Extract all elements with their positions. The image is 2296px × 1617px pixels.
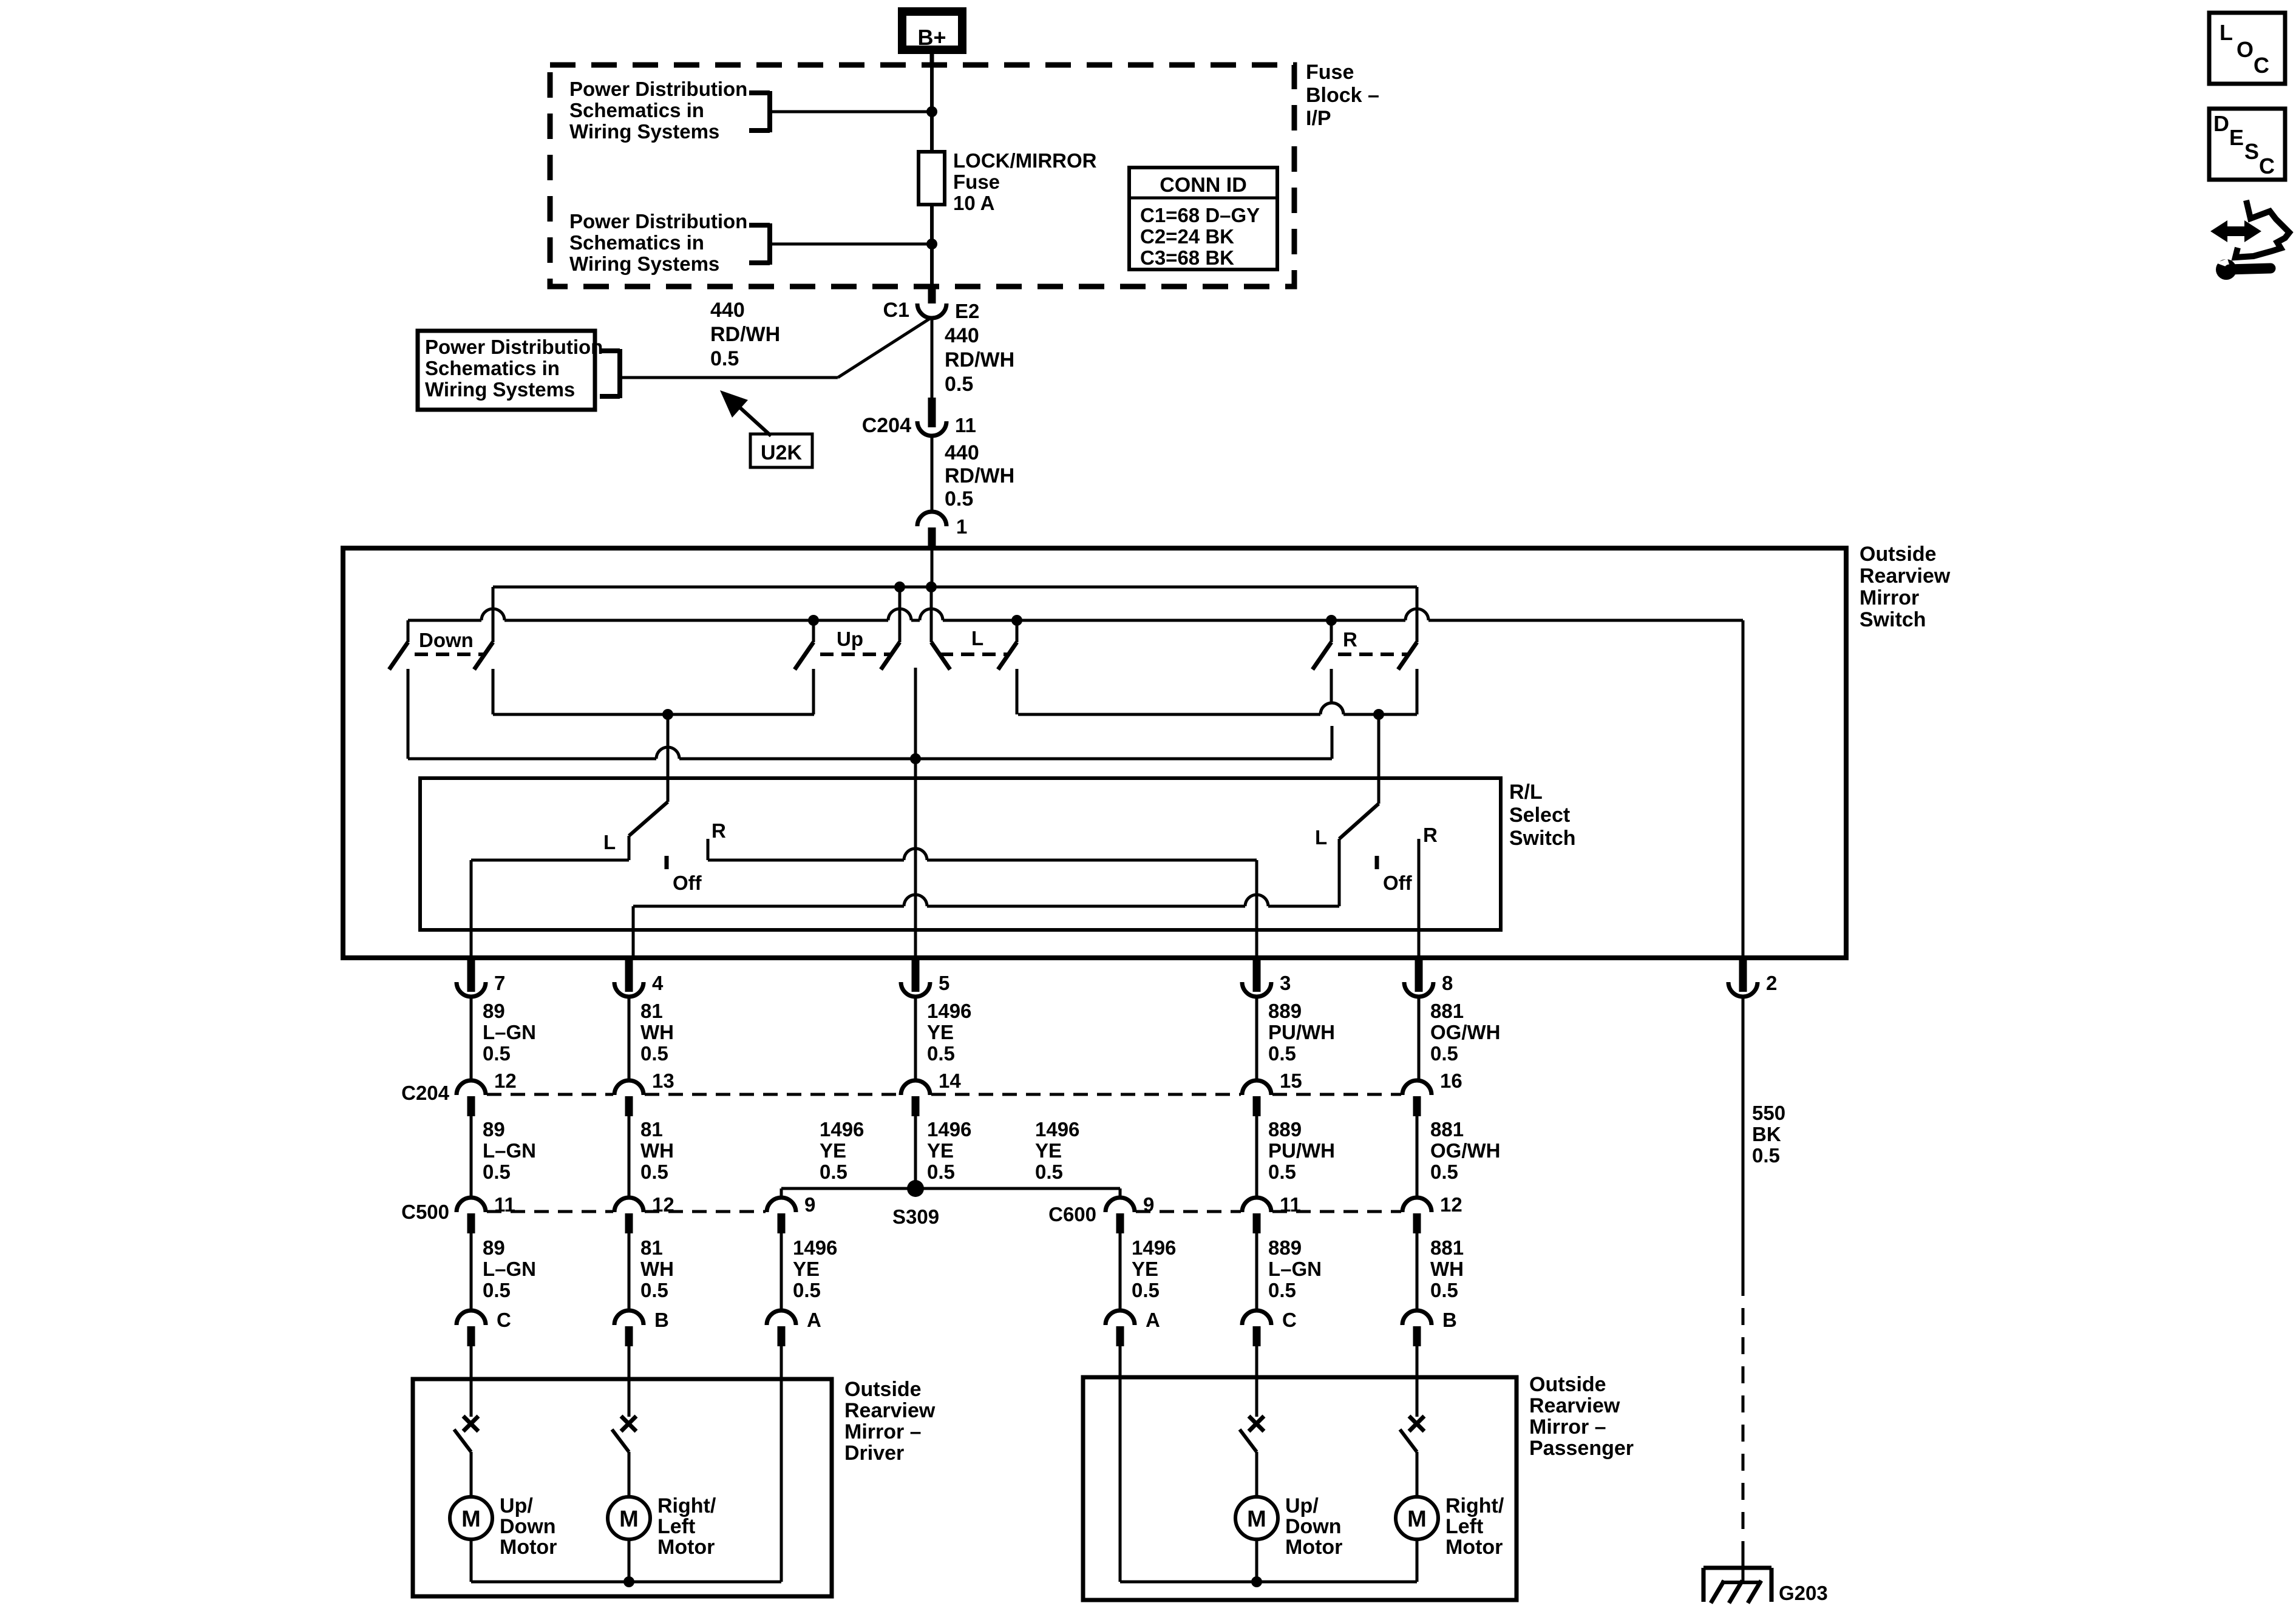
wire driver motor commons xyxy=(471,1539,781,1582)
svg-text:1496: 1496 xyxy=(820,1118,864,1141)
connector C204 pin 12 male stub xyxy=(467,1096,475,1116)
label Right/Left Motor (passenger) xyxy=(1445,1494,1504,1559)
wire left selector R to pin3 column xyxy=(708,849,1257,958)
svg-text:Power Distribution: Power Distribution xyxy=(569,78,747,100)
connector mirror pin C male stub xyxy=(1253,1326,1261,1346)
dashed connector line C500/C600 xyxy=(1272,1210,1401,1213)
svg-text:Left: Left xyxy=(1445,1515,1483,1538)
wire passenger motor commons xyxy=(1120,1539,1417,1582)
connector C1/E2 male stub xyxy=(928,286,936,303)
label Outside Rearview Mirror Switch xyxy=(1860,543,1951,631)
junction dot upper branch xyxy=(926,106,937,117)
svg-text:Down: Down xyxy=(500,1515,556,1538)
svg-text:9: 9 xyxy=(804,1193,815,1216)
svg-text:Mirror: Mirror xyxy=(1860,586,1919,609)
wire upper branch to B+ feed xyxy=(770,110,930,114)
connector pin 5 cup xyxy=(901,982,930,997)
arrow from U2K to wire xyxy=(720,390,771,436)
junction dot line A2 pole xyxy=(1373,709,1384,720)
label pin 11 (top) xyxy=(955,414,976,436)
switch L right blade xyxy=(998,642,1017,670)
svg-text:C500: C500 xyxy=(401,1201,449,1223)
svg-text:Motor: Motor xyxy=(1445,1536,1503,1559)
svg-text:0.5: 0.5 xyxy=(1268,1042,1296,1065)
connector C204 pin 15 dome xyxy=(1242,1080,1271,1095)
junction dot line A pole xyxy=(662,709,673,720)
connector mirror pin C dome xyxy=(1242,1310,1271,1325)
wire line1 right corner down (R switch right stub) xyxy=(1416,587,1419,642)
wire pin2 down to ground dashes xyxy=(1742,997,1745,1279)
wire Up left stub xyxy=(812,620,815,642)
connector C204 pin 16 male stub xyxy=(1413,1096,1421,1116)
svg-text:8: 8 xyxy=(1442,972,1453,994)
label S309 xyxy=(892,1205,939,1228)
svg-text:YE: YE xyxy=(1132,1258,1158,1280)
svg-text:Schematics in: Schematics in xyxy=(569,231,704,254)
svg-text:Select: Select xyxy=(1509,804,1570,827)
switch R left blade xyxy=(1313,642,1331,670)
svg-text:0.5: 0.5 xyxy=(483,1161,511,1183)
junction dot line1 at 1482 xyxy=(894,581,905,592)
wire pinC500-12 down xyxy=(628,1233,631,1310)
svg-text:E: E xyxy=(2229,125,2244,150)
label L xyxy=(971,627,983,649)
wire label 89 L-GN 0.5 (row2) xyxy=(483,1118,536,1183)
svg-text:O: O xyxy=(2237,37,2254,62)
wire collector line B xyxy=(408,747,1332,759)
svg-text:WH: WH xyxy=(640,1139,674,1162)
wire label 1496 YE 0.5 (row2 right) xyxy=(1035,1118,1079,1183)
wire mirror C down (driver) xyxy=(470,1346,473,1379)
svg-text:L: L xyxy=(603,831,616,853)
svg-text:E2: E2 xyxy=(955,300,979,322)
label C204 pin 15 xyxy=(1280,1070,1302,1092)
svg-text:L–GN: L–GN xyxy=(483,1021,536,1043)
wire R right terminal xyxy=(1416,669,1419,714)
label C500/C600 pin 11 xyxy=(494,1193,515,1216)
svg-text:0.5: 0.5 xyxy=(483,1042,511,1065)
svg-text:Outside: Outside xyxy=(844,1378,922,1401)
svg-text:0.5: 0.5 xyxy=(1430,1279,1458,1301)
svg-text:M: M xyxy=(619,1507,639,1532)
svg-text:889: 889 xyxy=(1268,1000,1302,1022)
passenger up/down motor feed switch xyxy=(1240,1377,1264,1497)
label L (right selector) xyxy=(1315,826,1327,849)
label power distribution schematics (lower) xyxy=(569,210,747,275)
R/L select switch box xyxy=(420,778,1501,930)
svg-text:C1: C1 xyxy=(883,299,909,322)
motor M driver right/left xyxy=(608,1497,650,1539)
wire B+ feed through fuse block upper xyxy=(930,65,934,153)
svg-text:0.5: 0.5 xyxy=(640,1042,668,1065)
wire line1 left corner down (Down switch right stub) xyxy=(492,587,495,642)
wire diagonal from C1 to power distribution branch xyxy=(624,318,931,378)
svg-text:YE: YE xyxy=(793,1258,820,1280)
U2K label box xyxy=(750,434,812,467)
connector pin 2 cup xyxy=(1728,982,1758,997)
svg-text:81: 81 xyxy=(640,1236,663,1259)
label C204 (top) xyxy=(862,414,911,437)
wire feed into switch xyxy=(931,548,934,587)
svg-text:B: B xyxy=(1442,1309,1457,1331)
svg-text:Up/: Up/ xyxy=(500,1494,533,1517)
svg-text:S309: S309 xyxy=(892,1205,939,1228)
label C500/C600 pin 12 xyxy=(652,1193,674,1216)
svg-text:I/P: I/P xyxy=(1306,107,1331,130)
svg-text:0.5: 0.5 xyxy=(945,373,973,396)
svg-text:Off: Off xyxy=(673,872,702,894)
svg-text:OG/WH: OG/WH xyxy=(1430,1139,1500,1162)
svg-text:1496: 1496 xyxy=(927,1000,971,1022)
DESC icon box xyxy=(2209,109,2285,180)
svg-text:L: L xyxy=(1315,826,1327,849)
connector C204 pin 13 dome xyxy=(614,1080,644,1095)
wire left selector L to pin7 column xyxy=(471,860,629,958)
svg-text:0.5: 0.5 xyxy=(1268,1161,1296,1183)
wire pin16 down xyxy=(1416,1116,1419,1198)
svg-text:C: C xyxy=(1282,1309,1297,1331)
wire pinC600-12 down xyxy=(1416,1233,1419,1310)
label R xyxy=(1343,628,1357,651)
connector pin 8 male stub xyxy=(1415,958,1423,992)
connector pin 7 male stub xyxy=(467,958,475,992)
wire mirror A down (driver) xyxy=(780,1346,783,1379)
svg-text:0.5: 0.5 xyxy=(1752,1144,1780,1167)
label mirror pin C xyxy=(497,1309,511,1331)
junction dot line2 Up stub xyxy=(808,615,819,626)
svg-text:BK: BK xyxy=(1752,1123,1781,1145)
svg-text:0.5: 0.5 xyxy=(483,1279,511,1301)
label Outside Rearview Mirror - Driver xyxy=(844,1378,936,1465)
svg-text:889: 889 xyxy=(1268,1236,1302,1259)
svg-text:16: 16 xyxy=(1440,1070,1462,1092)
connector C204 pin 13 male stub xyxy=(625,1096,633,1116)
connector pin 5 male stub xyxy=(912,958,920,992)
switch L linkage dashes xyxy=(940,653,1010,656)
svg-text:Power Distribution: Power Distribution xyxy=(425,336,603,358)
connector C204 pin 12 dome xyxy=(457,1080,486,1095)
wire mirror A down (passenger) xyxy=(1119,1346,1122,1377)
svg-text:Block –: Block – xyxy=(1306,84,1379,107)
wire line2 left corner down (Down switch left stub) xyxy=(407,620,410,642)
wire R left terminal xyxy=(1320,669,1343,759)
svg-text:881: 881 xyxy=(1430,1118,1464,1141)
svg-text:1496: 1496 xyxy=(1132,1236,1176,1259)
navigation arrows and wrench icon xyxy=(2210,200,2289,280)
svg-text:L–GN: L–GN xyxy=(1268,1258,1322,1280)
svg-text:81: 81 xyxy=(640,1000,663,1022)
svg-text:M: M xyxy=(1407,1507,1427,1532)
wire right selector L to pin4 column xyxy=(633,895,1339,958)
svg-text:13: 13 xyxy=(652,1070,674,1092)
svg-text:0.5: 0.5 xyxy=(1132,1279,1160,1301)
left selector L contact stub xyxy=(628,836,631,860)
svg-text:C3=68 BK: C3=68 BK xyxy=(1140,246,1234,269)
connector C204/11 cup xyxy=(917,421,946,436)
wire Down right terminal xyxy=(492,669,495,714)
svg-text:Right/: Right/ xyxy=(657,1494,716,1517)
right selector blade xyxy=(1339,804,1379,839)
wire label 889 PU/WH 0.5 (row2) xyxy=(1268,1118,1335,1183)
wire B+ to fuse block xyxy=(930,52,934,67)
connector C204 pin 14 male stub xyxy=(912,1096,920,1116)
left selector R contact stub xyxy=(707,839,710,860)
right selector Off tick xyxy=(1375,856,1379,869)
connector C500/C600 pin 9 male stub xyxy=(778,1213,786,1233)
svg-text:0.5: 0.5 xyxy=(1430,1042,1458,1065)
outside rearview mirror passenger box xyxy=(1083,1377,1517,1600)
svg-text:0.5: 0.5 xyxy=(1268,1279,1296,1301)
svg-text:RD/WH: RD/WH xyxy=(945,348,1014,371)
svg-text:Up: Up xyxy=(837,628,863,650)
svg-text:Switch: Switch xyxy=(1509,827,1576,850)
svg-text:1496: 1496 xyxy=(1035,1118,1079,1141)
wire lower branch to fuse output xyxy=(770,243,930,246)
svg-text:R: R xyxy=(1423,824,1438,846)
wire label 1496 YE 0.5 (row3 right) xyxy=(1132,1236,1176,1301)
svg-text:YE: YE xyxy=(1035,1139,1062,1162)
wire feed blade stub 1482 xyxy=(898,587,902,642)
dashed connector line C204 xyxy=(487,1093,613,1096)
svg-text:0.5: 0.5 xyxy=(640,1161,668,1183)
LOC icon box xyxy=(2209,13,2285,84)
wire label 1496 YE 0.5 (row3 left) xyxy=(793,1236,837,1301)
connector pin 3 male stub xyxy=(1253,958,1261,992)
svg-text:Passenger: Passenger xyxy=(1529,1437,1634,1460)
connector C500/C600 pin 11 dome xyxy=(457,1198,486,1212)
splice S309 wire xyxy=(781,1188,1120,1198)
label C500/C600 pin 9 xyxy=(1143,1193,1154,1216)
svg-text:M: M xyxy=(1247,1507,1266,1532)
wire label 89 L-GN 0.5 (row3) xyxy=(483,1236,536,1301)
connector C1/E2 cup xyxy=(917,303,946,318)
svg-text:Schematics in: Schematics in xyxy=(569,99,704,121)
svg-text:7: 7 xyxy=(494,972,505,994)
driver up/down motor feed switch xyxy=(454,1379,478,1497)
svg-text:881: 881 xyxy=(1430,1236,1464,1259)
svg-text:Motor: Motor xyxy=(500,1536,557,1559)
wire label 440 RD/WH 0.5 (to C204) xyxy=(945,324,1014,396)
wire pin8 down xyxy=(1418,997,1421,1080)
svg-text:Schematics in: Schematics in xyxy=(425,357,560,379)
svg-text:B+: B+ xyxy=(917,25,946,50)
label C600 xyxy=(1048,1203,1096,1225)
svg-text:11: 11 xyxy=(955,414,976,436)
connector C204 pin 14 dome xyxy=(901,1080,930,1095)
wire fuse to connector C1 xyxy=(930,203,934,288)
svg-text:C: C xyxy=(2254,53,2269,78)
outside rearview mirror switch box xyxy=(343,548,1846,958)
wire passenger A to common xyxy=(1119,1377,1122,1582)
label Up xyxy=(837,628,863,650)
connector pin 8 cup xyxy=(1404,982,1433,997)
label C204 pin 16 xyxy=(1440,1070,1462,1092)
wire label 81 WH 0.5 (row3) xyxy=(640,1236,674,1301)
svg-text:B: B xyxy=(654,1309,669,1331)
svg-text:A: A xyxy=(1146,1309,1160,1331)
wire label 550 BK 0.5 xyxy=(1752,1102,1785,1167)
wire center pole from fork (to pin 5) xyxy=(914,668,917,958)
svg-text:440: 440 xyxy=(710,299,745,322)
wire pinC600-11 down xyxy=(1255,1233,1258,1310)
junction dot driver common xyxy=(623,1576,634,1587)
wire pin4 down xyxy=(628,997,631,1080)
label Down xyxy=(419,629,474,651)
svg-text:Mirror –: Mirror – xyxy=(844,1420,922,1443)
wire pin13 down xyxy=(628,1116,631,1198)
connector pin 1 dome xyxy=(917,512,946,526)
svg-text:Mirror –: Mirror – xyxy=(1529,1415,1606,1439)
connector pin 2 male stub xyxy=(1739,958,1747,992)
right selector L contact stub xyxy=(1338,839,1341,906)
wire pinC500-11 down xyxy=(470,1233,473,1310)
wire pin2 dashed to ground xyxy=(1742,1279,1745,1544)
svg-text:Motor: Motor xyxy=(1285,1536,1342,1559)
svg-text:81: 81 xyxy=(640,1118,663,1141)
svg-text:WH: WH xyxy=(640,1021,674,1043)
wire ground stub xyxy=(1742,1544,1745,1584)
dashed connector line C500/C600 xyxy=(1136,1210,1241,1213)
label Fuse Block - I/P xyxy=(1306,61,1379,130)
label C204 pin 14 xyxy=(939,1070,961,1092)
wire driver A to common xyxy=(780,1379,783,1582)
dashed connector line C500/C600 xyxy=(487,1210,613,1213)
svg-text:PU/WH: PU/WH xyxy=(1268,1021,1335,1043)
svg-text:440: 440 xyxy=(945,441,979,464)
label Off (left selector) xyxy=(673,872,702,894)
connector mirror pin A dome xyxy=(767,1310,796,1325)
wire pinC600-9 down xyxy=(1119,1233,1122,1310)
svg-text:0.5: 0.5 xyxy=(1035,1161,1063,1183)
wire pin7 down xyxy=(470,997,473,1080)
svg-text:1496: 1496 xyxy=(793,1236,837,1259)
wire label 881 OG/WH 0.5 (row2) xyxy=(1430,1118,1500,1183)
connector mirror pin C male stub xyxy=(467,1326,475,1346)
switch Up feed blade (from line1 1482) xyxy=(881,642,900,670)
junction dot lower branch xyxy=(926,239,937,249)
svg-text:C: C xyxy=(2259,154,2275,178)
label R (left selector) xyxy=(712,819,726,842)
fuse block dashed border (Fuse Block - I/P) xyxy=(550,65,1294,286)
connector mirror pin A male stub xyxy=(778,1326,786,1346)
svg-text:89: 89 xyxy=(483,1000,505,1022)
svg-text:Motor: Motor xyxy=(657,1536,715,1559)
connector C500/C600 pin 12 dome xyxy=(614,1198,644,1212)
label G203 xyxy=(1779,1582,1828,1604)
connector C500/C600 pin 9 male stub xyxy=(1116,1213,1124,1233)
dashed connector line C500/C600 xyxy=(645,1210,766,1213)
wire Down left terminal xyxy=(407,669,410,759)
junction dot line2 R stub xyxy=(1326,615,1337,626)
connector C500/C600 pin 12 male stub xyxy=(1413,1213,1421,1233)
junction dot line2 L stub xyxy=(1011,615,1022,626)
svg-text:R/L: R/L xyxy=(1509,781,1543,804)
wire L right stub xyxy=(1016,620,1019,642)
svg-text:S: S xyxy=(2244,139,2259,164)
wire label 1496 YE 0.5 (row1) xyxy=(927,1000,971,1065)
power distribution schematics box xyxy=(418,331,603,410)
svg-text:RD/WH: RD/WH xyxy=(945,464,1014,487)
svg-text:C: C xyxy=(497,1309,511,1331)
svg-text:C204: C204 xyxy=(401,1082,450,1104)
wire mirror B down (passenger) xyxy=(1416,1346,1419,1377)
connector mirror pin B male stub xyxy=(1413,1326,1421,1346)
junction dot passenger common xyxy=(1251,1576,1262,1587)
svg-text:Down: Down xyxy=(419,629,474,651)
wire mirror B down (driver) xyxy=(628,1346,631,1379)
svg-text:G203: G203 xyxy=(1779,1582,1828,1604)
switch Up linkage dashes xyxy=(820,653,891,656)
wire label 440 RD/WH 0.5 (C204 to switch) xyxy=(945,441,1014,510)
label mirror pin C xyxy=(1282,1309,1297,1331)
svg-text:Outside: Outside xyxy=(1860,543,1937,566)
connector C500/C600 pin 11 dome xyxy=(1242,1198,1271,1212)
svg-text:L–GN: L–GN xyxy=(483,1139,536,1162)
switch Down linkage dashes xyxy=(415,653,486,656)
label L (left selector) xyxy=(603,831,616,853)
battery terminal B+ xyxy=(902,12,962,50)
svg-text:889: 889 xyxy=(1268,1118,1302,1141)
switch Up left blade xyxy=(795,642,813,670)
svg-text:3: 3 xyxy=(1280,972,1291,994)
svg-text:U2K: U2K xyxy=(761,441,802,464)
wire label 89 L-GN 0.5 (row1) xyxy=(483,1000,536,1065)
wire pinC500-9 down xyxy=(780,1233,783,1310)
splice S309 dot xyxy=(907,1180,924,1197)
svg-text:Wiring Systems: Wiring Systems xyxy=(569,253,719,275)
wire line2 right corner down to pin 2 xyxy=(1742,620,1745,958)
svg-text:Rearview: Rearview xyxy=(1860,564,1951,588)
label LOCK/MIRROR Fuse 10 A xyxy=(953,149,1097,214)
wire feed blade stub 1534 xyxy=(930,587,933,642)
label pin 3 xyxy=(1280,972,1291,994)
switch L feed blade (from line1 1534) xyxy=(931,642,950,670)
label Outside Rearview Mirror - Passenger xyxy=(1529,1373,1634,1460)
svg-text:Power Distribution: Power Distribution xyxy=(569,210,747,232)
svg-text:12: 12 xyxy=(494,1070,517,1092)
wire bus line2 xyxy=(408,609,1743,620)
svg-text:L–GN: L–GN xyxy=(483,1258,536,1280)
svg-text:L: L xyxy=(971,627,983,649)
svg-text:C2=24 BK: C2=24 BK xyxy=(1140,225,1234,248)
wire pin14 down to S309 xyxy=(914,1116,917,1188)
connector pin 4 male stub xyxy=(625,958,633,992)
svg-text:YE: YE xyxy=(927,1021,954,1043)
svg-text:0.5: 0.5 xyxy=(927,1042,955,1065)
connector C500/C600 pin 9 dome xyxy=(1106,1198,1135,1212)
svg-text:12: 12 xyxy=(1440,1193,1462,1216)
wire label 889 PU/WH 0.5 (row1) xyxy=(1268,1000,1335,1065)
connector mirror pin C dome xyxy=(457,1310,486,1325)
connector mirror pin B dome xyxy=(614,1310,644,1325)
wire pin15 down xyxy=(1255,1116,1258,1198)
label C500/C600 pin 12 xyxy=(1440,1193,1462,1216)
svg-text:5: 5 xyxy=(939,972,949,994)
junction dot line B center xyxy=(910,753,921,764)
svg-text:OG/WH: OG/WH xyxy=(1430,1021,1500,1043)
left selector Off tick xyxy=(665,856,669,869)
switch R right blade xyxy=(1398,642,1417,670)
wire collector line A xyxy=(493,713,814,716)
svg-text:Driver: Driver xyxy=(844,1442,904,1465)
connector pin 7 cup xyxy=(457,982,486,997)
svg-text:C600: C600 xyxy=(1048,1203,1096,1225)
svg-text:0.5: 0.5 xyxy=(927,1161,955,1183)
label Right/Left Motor (driver) xyxy=(657,1494,716,1559)
label C1 xyxy=(883,299,909,322)
wire collector line A2 xyxy=(1018,703,1417,714)
svg-text:YE: YE xyxy=(820,1139,846,1162)
